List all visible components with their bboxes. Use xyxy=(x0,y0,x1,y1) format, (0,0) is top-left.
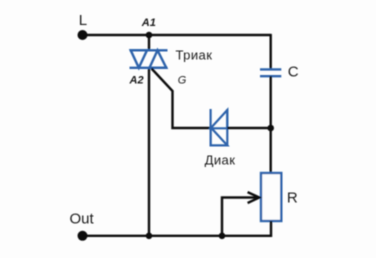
wire wiper from bottom rail with arrow xyxy=(222,192,259,236)
node A1 xyxy=(141,17,156,39)
capacitor C xyxy=(260,69,281,76)
wire potentiometer bottom to rail xyxy=(83,221,272,236)
svg-text:C: C xyxy=(288,64,299,81)
diac D1 xyxy=(211,109,228,146)
svg-text:G: G xyxy=(178,75,187,87)
potentiometer R body xyxy=(261,173,281,221)
wire gate from triac to diac xyxy=(152,69,211,129)
svg-text:A2: A2 xyxy=(129,75,144,87)
node diac/C/R junction xyxy=(267,125,274,132)
svg-text:A1: A1 xyxy=(141,17,156,29)
wire top rail from L to right corner xyxy=(83,34,271,36)
svg-text:L: L xyxy=(79,12,87,29)
triac U1 xyxy=(130,50,168,68)
wire node to potentiometer xyxy=(270,128,272,173)
wire right branch vertical (corner to capacitor) xyxy=(270,34,272,69)
svg-text:R: R xyxy=(287,189,298,206)
node wiper junction on bottom rail xyxy=(219,233,226,240)
terminal L xyxy=(78,12,88,40)
node triac junction on bottom rail xyxy=(146,233,153,240)
wire capacitor to node xyxy=(270,76,272,128)
wire diac output to node xyxy=(227,127,270,129)
terminal Out xyxy=(70,211,95,241)
svg-text:Out: Out xyxy=(70,211,95,228)
wire main vertical from A1 through triac to bottom rail xyxy=(148,35,150,50)
svg-text:Триак: Триак xyxy=(176,47,213,62)
svg-text:Диак: Диак xyxy=(205,152,236,167)
